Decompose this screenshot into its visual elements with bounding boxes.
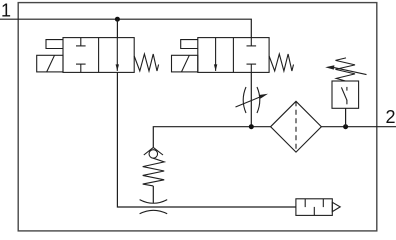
wire vacuum switch stem [345,108,347,126]
wire supply 1 [0,19,251,37]
check valve ball [149,150,158,159]
wire vacuum line right to port 2 [321,126,396,128]
check valve seat [144,147,163,155]
wire V2 outlet down to vacuum line [250,72,252,126]
junction vacuum switch branch [343,124,348,129]
throttle adjustment arrow [236,94,269,107]
V2 solenoid coil [172,55,198,72]
vacuum switch body [332,81,359,108]
filter [271,101,322,152]
V1 flow path arrow (right box) [116,38,119,71]
V2 blocked port symbols (right box) [247,38,257,73]
wire to valve V1 inlet [116,19,118,37]
junction vacuum line / V2 branch [249,124,254,129]
V1 solenoid coil [37,55,63,72]
V2 return spring [269,54,293,71]
V1 blocked port symbols (left box) [76,38,86,73]
V2 flow path arrow (left box) [214,38,217,71]
solenoid valve V2 body [198,38,269,73]
wire V1 outlet to silencer [117,72,296,207]
junction on supply wire [115,17,120,22]
wire vacuum line left [153,127,270,148]
wire check valve to ejector throat [152,186,154,203]
throttle valve (adjustable restrictor) [243,87,260,113]
svg-text:1: 1 [1,0,11,20]
ejector venturi nozzle [140,200,168,214]
vacuum switch adjustment arrow [325,65,366,74]
vacuum switch setting spring [336,58,356,81]
V1 manual override [46,40,63,49]
V2 manual override [181,40,198,49]
solenoid valve V1 body [63,38,134,73]
V1 return spring [134,54,158,71]
svg-text:2: 2 [386,107,396,127]
check valve spring [143,158,165,186]
silencer [296,199,340,216]
vacuum switch contact [341,87,347,104]
